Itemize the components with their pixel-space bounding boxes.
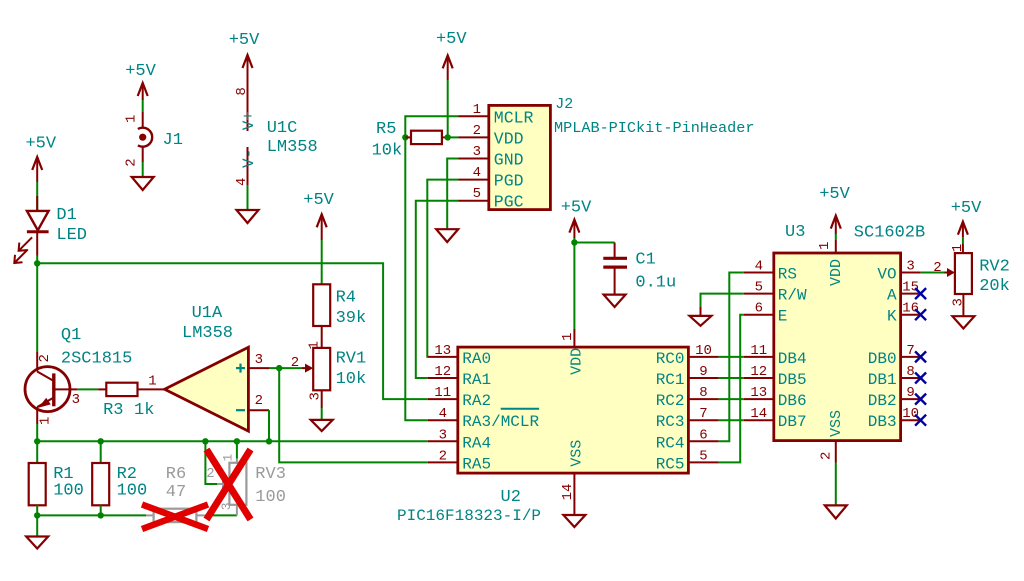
svg-text:14: 14 (750, 406, 767, 422)
U3 pin 15 A (887, 280, 921, 305)
label C1 0.1u (635, 250, 676, 292)
label MPLAB-PICkit-PinHeader (554, 119, 755, 137)
svg-text:+5V: +5V (951, 199, 982, 218)
U1C pin 8 (234, 87, 250, 95)
wire J1 to ground (142, 162, 144, 177)
U3 pin 1 VDD (817, 240, 845, 286)
label U1A (182, 304, 233, 343)
svg-text:1: 1 (950, 244, 966, 252)
potentiometer RV2 (945, 244, 972, 294)
wire +5V to RV2 (962, 237, 964, 244)
RV3 wiper arrow (217, 480, 229, 488)
svg-text:LED: LED (56, 226, 87, 245)
junction bus/R2 (98, 438, 104, 444)
svg-text:U1A: U1A (192, 304, 223, 323)
ground (J2) (436, 229, 458, 242)
transistor Q1 (25, 352, 77, 424)
wire J2 GND net (447, 159, 458, 230)
svg-text:RV1: RV1 (336, 350, 367, 369)
U2 RA3 MCLR overline (501, 408, 539, 410)
resistor R5 (405, 131, 447, 144)
svg-text:V+: V+ (240, 111, 258, 130)
junction rail/R2 (98, 512, 104, 518)
U3 pin 12 DB5 (744, 364, 807, 389)
svg-text:2: 2 (439, 448, 447, 464)
U1C pin 4 (234, 178, 250, 186)
svg-text:2: 2 (473, 123, 481, 139)
no-connect DB0 (915, 351, 926, 362)
svg-text:8: 8 (699, 385, 707, 401)
svg-text:RA4: RA4 (462, 434, 491, 452)
wire RV2 to ground (962, 294, 964, 316)
svg-text:D1: D1 (56, 206, 76, 225)
wire bus RA4 (37, 440, 428, 442)
label J1 (163, 131, 183, 150)
svg-text:RC0: RC0 (656, 350, 685, 368)
ground (RV2) (952, 316, 974, 328)
svg-text:GND: GND (494, 151, 524, 170)
U2 pin 5 RC5 (656, 448, 719, 473)
DNP cross R6 (142, 505, 208, 530)
U2 pin 13 RA0 (428, 343, 491, 368)
ground (RV1) (311, 420, 333, 431)
svg-text:10: 10 (902, 406, 919, 422)
wire VDD down to U2 (573, 243, 575, 330)
svg-text:RA0: RA0 (462, 350, 491, 368)
wire +5V to J1 (142, 100, 144, 112)
svg-text:9: 9 (699, 364, 707, 380)
svg-text:2: 2 (933, 260, 941, 276)
wire +5V to VDD junction (573, 238, 575, 243)
svg-text:C1: C1 (635, 250, 655, 269)
label PIC16F18323-I/P (397, 507, 541, 525)
svg-text:RS: RS (778, 266, 797, 284)
svg-text:DB5: DB5 (778, 371, 807, 389)
junction R5 left (402, 134, 408, 140)
LED D1 (14, 196, 48, 263)
svg-text:2: 2 (255, 393, 263, 409)
U2 pin 14 VSS (560, 440, 585, 515)
label R4 39k (336, 289, 367, 328)
wire bus to RV3 wiper (205, 441, 217, 484)
svg-text:4: 4 (439, 406, 447, 422)
wire U3 VSS to ground (835, 463, 837, 506)
svg-text:RV3: RV3 (255, 465, 286, 484)
U3 pin 10 DB3 (868, 406, 921, 431)
J2 pin 2 VDD (459, 123, 524, 149)
wire RC5 to E (719, 315, 744, 463)
svg-text:2: 2 (37, 354, 53, 362)
svg-text:K: K (887, 308, 897, 326)
power +5V (U2 VDD) (561, 198, 592, 238)
svg-text:14: 14 (560, 484, 576, 501)
U3 pin 3 VO (877, 259, 920, 284)
svg-text:+5V: +5V (303, 191, 334, 210)
wire rail to RV3 (206, 514, 237, 516)
no-connect K (915, 309, 926, 320)
svg-text:RC2: RC2 (656, 392, 685, 410)
svg-text:8: 8 (234, 87, 250, 95)
resistor R6 (DNP) (146, 509, 206, 522)
svg-text:1: 1 (124, 115, 140, 123)
RV2 pin 1 (950, 244, 966, 252)
wire node to Q1 collector (36, 263, 38, 352)
U2 pin 8 RC2 (656, 385, 719, 410)
svg-text:A: A (887, 287, 897, 305)
svg-text:6: 6 (755, 301, 763, 317)
svg-text:DB2: DB2 (868, 392, 897, 410)
U2 pin 4 RA3/MCLR (428, 406, 540, 431)
resistor R2 (92, 441, 109, 515)
wire RC2 to DB6 (719, 398, 744, 400)
Q1 pin 1 (38, 417, 54, 425)
svg-text:U1C: U1C (267, 119, 298, 138)
wire MCLR net (405, 116, 458, 420)
svg-text:R/W: R/W (778, 287, 807, 305)
Q1 pin 3 (72, 392, 80, 408)
svg-text:1: 1 (473, 102, 481, 118)
wire U1C to ground (247, 185, 249, 210)
IC U3 body (774, 253, 901, 441)
svg-text:PGC: PGC (494, 193, 524, 212)
J1 pin 2 (124, 158, 140, 166)
power +5V (U1C) (229, 31, 260, 75)
svg-text:11: 11 (750, 343, 767, 359)
label U3 (785, 223, 805, 242)
wire +5V to U3 VDD (835, 234, 837, 240)
junction bus/U1A minus (266, 438, 272, 444)
wire PGD net (427, 180, 458, 357)
svg-text:VO: VO (877, 266, 896, 284)
svg-text:RV2: RV2 (979, 257, 1010, 276)
junction R5 right / VDD (445, 134, 451, 140)
label SC1602B (854, 224, 925, 243)
svg-text:1: 1 (38, 417, 54, 425)
svg-text:V-: V- (240, 149, 258, 168)
svg-text:LM358: LM358 (182, 324, 233, 343)
svg-text:+5V: +5V (125, 62, 156, 81)
U3 pin 7 DB0 (868, 343, 921, 368)
ground (J1) (132, 177, 154, 190)
U1A pin 1 (148, 373, 156, 389)
svg-text:R6: R6 (166, 465, 186, 484)
power +5V (D1 branch) (25, 135, 56, 183)
label D1 (56, 206, 87, 245)
svg-text:2: 2 (206, 466, 214, 482)
svg-text:U2: U2 (501, 488, 521, 507)
power +5V (R4) (303, 191, 334, 240)
ground (C1) (604, 295, 626, 307)
svg-text:+5V: +5V (819, 185, 850, 204)
svg-text:RC4: RC4 (656, 434, 685, 452)
RV2 pin 3 (951, 298, 967, 306)
svg-text:12: 12 (750, 364, 767, 380)
wire +5V to R4 (321, 240, 323, 284)
U1A pin 2 (255, 393, 263, 409)
svg-text:100: 100 (53, 482, 84, 501)
svg-text:R4: R4 (336, 289, 356, 308)
J2 pin 4 PGD (459, 165, 524, 191)
svg-text:5: 5 (755, 280, 763, 296)
svg-text:J1: J1 (163, 131, 183, 150)
svg-text:1: 1 (307, 341, 323, 349)
potentiometer RV1 (302, 348, 330, 390)
svg-text:7: 7 (906, 343, 914, 359)
junction bus/RV3 wiper (202, 438, 208, 444)
J2 pin 3 GND (459, 144, 524, 170)
IC U2 body (458, 347, 689, 473)
wire VDD to J2 pin 2 (448, 136, 459, 138)
svg-text:+5V: +5V (229, 31, 260, 50)
svg-text:3: 3 (439, 427, 447, 443)
resistor R1 (29, 441, 46, 515)
svg-text:RA3/MCLR: RA3/MCLR (462, 413, 539, 431)
U2 pin 11 RA2 (428, 385, 491, 410)
power +5V (J1) (125, 62, 156, 100)
svg-text:100: 100 (117, 482, 148, 501)
label R1 100 (53, 465, 84, 500)
svg-text:8: 8 (906, 364, 914, 380)
ground (U1C) (237, 210, 259, 223)
power +5V (U3 VDD) (819, 185, 850, 234)
wire RC1 to DB5 (719, 377, 744, 379)
potentiometer RV3 (DNP) (229, 441, 246, 515)
no-connect A (915, 288, 926, 299)
junction rail/R1 (34, 512, 40, 518)
svg-text:VDD: VDD (494, 129, 524, 148)
RV3 pin 3 (219, 502, 234, 510)
U3 pin 2 VSS (818, 410, 845, 463)
svg-text:SC1602B: SC1602B (854, 224, 925, 243)
label J2 (555, 96, 573, 113)
resistor R4 (313, 284, 330, 326)
label RV2 20k (979, 257, 1010, 295)
op-amp U1A (165, 347, 269, 431)
svg-text:2: 2 (124, 158, 140, 166)
wire RC0 to DB4 (719, 356, 744, 358)
RV3 pin 1 (221, 454, 236, 462)
wire D1 cathode to node (36, 256, 38, 264)
wire Q1 base to R3 (77, 388, 98, 390)
svg-text:7: 7 (699, 406, 707, 422)
svg-text:20k: 20k (979, 277, 1010, 296)
label Q1 (61, 326, 132, 368)
svg-text:DB6: DB6 (778, 392, 807, 410)
svg-text:10k: 10k (336, 370, 367, 389)
wire ground rail (37, 514, 146, 516)
U3 pin 16 K (887, 301, 921, 326)
label R2 100 (117, 465, 148, 500)
wire D1 node to RA2 (37, 263, 428, 399)
svg-text:J2: J2 (555, 96, 573, 113)
svg-text:RA5: RA5 (462, 455, 491, 473)
svg-text:VSS: VSS (828, 410, 845, 437)
svg-text:3: 3 (906, 259, 914, 275)
U1C pin V- (240, 149, 258, 168)
U2 pin 1 VDD (560, 329, 585, 375)
wire VO to RV2 (921, 272, 945, 274)
ground (rail) (26, 537, 48, 549)
label U1C (267, 119, 318, 157)
svg-text:12: 12 (434, 364, 451, 380)
svg-text:2: 2 (818, 452, 834, 460)
ground (U3 VSS) (825, 505, 847, 518)
svg-text:0.1u: 0.1u (635, 273, 676, 292)
svg-text:R5: R5 (376, 120, 396, 139)
svg-text:1k: 1k (134, 401, 154, 420)
wire rail to ground (36, 515, 38, 536)
label RV3 100 (255, 465, 286, 507)
svg-text:1: 1 (148, 373, 156, 389)
connector J2 body (489, 105, 551, 209)
svg-text:3: 3 (255, 352, 263, 368)
svg-text:R3: R3 (103, 401, 123, 420)
U3 pin 14 DB7 (744, 406, 807, 431)
svg-text:DB7: DB7 (778, 413, 807, 431)
wire U1A plus to node (269, 367, 279, 369)
wire U1A minus to bus (268, 410, 270, 441)
svg-text:4: 4 (234, 178, 250, 186)
svg-text:5: 5 (473, 186, 481, 202)
svg-text:13: 13 (750, 385, 767, 401)
wire Q1 emitter to bus (36, 424, 38, 441)
svg-text:39k: 39k (336, 309, 367, 328)
svg-text:DB3: DB3 (868, 413, 897, 431)
svg-text:10: 10 (695, 343, 712, 359)
label U2 (501, 488, 521, 507)
ground (R/W) (690, 316, 712, 326)
label R5 10k (372, 120, 403, 161)
capacitor C1 (603, 243, 627, 295)
wire to C1 (574, 242, 614, 244)
svg-text:9: 9 (906, 385, 914, 401)
label R6 47 (166, 465, 186, 502)
RV2 pin 2 (933, 260, 941, 276)
svg-text:13: 13 (434, 343, 451, 359)
wire RC4 to RS (719, 273, 744, 442)
svg-text:100: 100 (255, 488, 286, 507)
svg-text:1: 1 (221, 454, 236, 462)
U2 pin 3 RA4 (428, 427, 491, 452)
wire D1 anode (36, 182, 38, 211)
svg-text:PGD: PGD (494, 172, 524, 191)
svg-text:PIC16F18323-I/P: PIC16F18323-I/P (397, 507, 541, 525)
U2 pin 12 RA1 (428, 364, 491, 389)
ground (U2 VSS) (563, 515, 585, 527)
wire +5V to VDD node (447, 80, 449, 137)
svg-text:DB1: DB1 (868, 371, 897, 389)
junction VDD/C1 (571, 239, 577, 245)
wire RV1 to ground (321, 390, 323, 420)
junction node plus/wiper/RA5 (276, 365, 282, 371)
svg-text:DB4: DB4 (778, 350, 807, 368)
wire node to RA5 (279, 368, 428, 462)
svg-text:VDD: VDD (828, 259, 845, 286)
J2 pin 5 PGC (459, 186, 524, 212)
U1C pin V+ (240, 111, 258, 130)
U2 pin 7 RC3 (656, 406, 719, 431)
wire RC3 to DB7 (719, 419, 744, 421)
wire node to RV1 wiper (279, 367, 302, 369)
RV3 pin 2 (206, 466, 214, 482)
U3 pin 8 DB1 (868, 364, 921, 389)
label R3 1k (103, 401, 154, 420)
U2 pin 2 RA5 (428, 448, 491, 473)
svg-text:RA2: RA2 (462, 392, 491, 410)
RV1 pin 2 (291, 355, 299, 371)
svg-text:2: 2 (291, 355, 299, 371)
svg-text:LM358: LM358 (267, 138, 318, 157)
svg-text:11: 11 (434, 385, 451, 401)
wire R4 to RV1 (321, 326, 323, 348)
svg-text:1: 1 (817, 242, 833, 250)
RV1 pin 1 (307, 341, 323, 349)
svg-text:+5V: +5V (436, 30, 467, 49)
svg-text:3: 3 (219, 502, 234, 510)
resistor R3 (98, 383, 164, 396)
svg-text:4: 4 (473, 165, 481, 181)
DNP cross RV3 (207, 450, 251, 520)
U3 pin 11 DB4 (744, 343, 807, 368)
svg-text:4: 4 (755, 259, 763, 275)
svg-text:+5V: +5V (25, 135, 56, 154)
svg-text:E: E (778, 308, 788, 326)
svg-text:3: 3 (72, 392, 80, 408)
RV1 pin 3 (308, 392, 324, 400)
svg-text:Q1: Q1 (61, 326, 81, 345)
U3 pin 9 DB2 (868, 385, 921, 410)
no-connect DB2 (915, 394, 926, 405)
svg-text:MPLAB-PICkit-PinHeader: MPLAB-PICkit-PinHeader (554, 119, 755, 137)
svg-text:RC3: RC3 (656, 413, 685, 431)
svg-text:2SC1815: 2SC1815 (61, 350, 132, 369)
label RV1 10k (336, 350, 367, 390)
svg-text:RC5: RC5 (656, 455, 685, 473)
Q1 pin 2 (37, 354, 53, 362)
wire R/W to ground (701, 294, 744, 316)
no-connect DB1 (915, 373, 926, 384)
svg-text:47: 47 (166, 483, 186, 502)
U2 pin 10 RC0 (656, 343, 719, 368)
no-connect DB3 (915, 415, 926, 426)
svg-text:VSS: VSS (568, 440, 585, 467)
U2 pin 6 RC4 (656, 427, 719, 452)
svg-text:MCLR: MCLR (494, 108, 534, 127)
junction bus/R1 (34, 438, 40, 444)
U3 pin 5 R/W (744, 280, 807, 305)
U3 pin 13 DB6 (744, 385, 807, 410)
U2 pin 9 RC1 (656, 364, 719, 389)
U1A pin 3 (255, 352, 263, 368)
svg-text:6: 6 (699, 427, 707, 443)
op-amp U1C power pins (247, 75, 249, 185)
connector J1 (138, 112, 152, 162)
svg-text:16: 16 (902, 301, 919, 317)
U3 pin 6 E (744, 301, 788, 326)
svg-text:15: 15 (902, 280, 919, 296)
svg-text:3: 3 (473, 144, 481, 160)
junction node D1/RA2 (34, 260, 40, 266)
svg-text:10k: 10k (372, 142, 403, 161)
svg-text:RC1: RC1 (656, 371, 685, 389)
svg-text:U3: U3 (785, 223, 805, 242)
J2 pin 1 MCLR (459, 102, 534, 128)
svg-text:DB0: DB0 (868, 350, 897, 368)
J1 pin 1 (124, 115, 140, 123)
svg-text:5: 5 (699, 448, 707, 464)
wire PGC net (416, 201, 459, 378)
svg-text:+5V: +5V (561, 198, 592, 217)
